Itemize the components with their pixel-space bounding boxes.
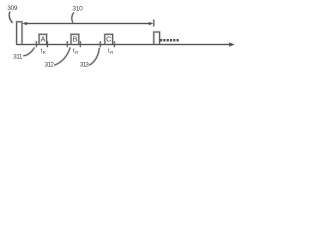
svg-text:R: R: [75, 50, 78, 55]
svg-text:310: 310: [72, 6, 83, 13]
svg-text:R: R: [110, 50, 113, 55]
svg-text:R: R: [43, 50, 46, 55]
svg-text:C: C: [106, 37, 111, 44]
svg-text:B: B: [73, 37, 78, 44]
svg-text:A: A: [41, 37, 46, 44]
svg-text:313: 313: [80, 62, 90, 69]
svg-text:309: 309: [7, 5, 18, 12]
svg-text:312: 312: [45, 62, 55, 69]
svg-text:311: 311: [13, 53, 23, 60]
